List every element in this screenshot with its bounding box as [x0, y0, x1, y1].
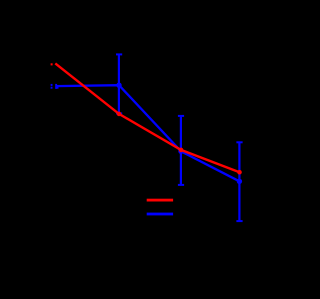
- blue error bar 4 vertical: [238, 142, 240, 221]
- blue error bar 4 bottom cap: [236, 220, 242, 222]
- blue error bar 2 top cap: [116, 53, 122, 55]
- blue error bar 3 top cap: [178, 115, 184, 117]
- blue error bar 4 top cap: [236, 141, 242, 143]
- red marker point 2: [117, 112, 122, 117]
- red cap fragment (left edge): [51, 63, 53, 65]
- blue point1 error bar: [55, 84, 57, 89]
- red marker point 4: [237, 170, 242, 175]
- blue marker point 2: [116, 83, 121, 88]
- blue error bar 2 bottom cap: [116, 112, 122, 114]
- legend blue line sample: [147, 213, 173, 216]
- red series polyline: [55, 63, 239, 172]
- blue point1 lower blob: [57, 87, 59, 89]
- blue error bar 3 vertical: [180, 116, 182, 185]
- blue cap fragment B (left edge): [51, 87, 53, 89]
- blue series polyline: [56, 85, 239, 181]
- blue error bar 3 bottom cap: [178, 184, 184, 186]
- legend red line sample: [147, 199, 173, 202]
- red marker point 3: [179, 148, 184, 153]
- blue marker point 4: [237, 179, 242, 184]
- blue error bar 2 vertical: [118, 54, 120, 113]
- blue cap fragment A (left edge): [51, 84, 53, 86]
- blue marker point 3: [178, 149, 183, 154]
